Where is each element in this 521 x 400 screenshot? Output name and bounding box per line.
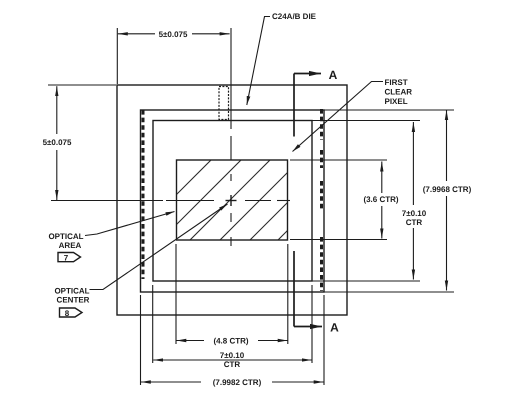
vertical centerline: [230, 28, 232, 246]
svg-text:FIRST: FIRST: [385, 78, 408, 87]
die outline outer square: [117, 85, 347, 315]
leader OPTICAL AREA: [85, 212, 175, 236]
flag 7: [58, 253, 81, 262]
svg-text:CTR: CTR: [406, 218, 423, 227]
svg-text:C24A/B DIE: C24A/B DIE: [272, 12, 317, 21]
inner die edge square 1: [141, 110, 325, 292]
svg-text:OPTICAL: OPTICAL: [54, 287, 89, 296]
svg-text:CENTER: CENTER: [57, 296, 90, 305]
svg-text:AREA: AREA: [59, 241, 82, 250]
leader FIRST CLEAR PIXEL: [293, 82, 384, 152]
section line A top: [294, 74, 321, 137]
leader OPTICAL CENTER: [90, 204, 228, 290]
svg-text:5±0.075: 5±0.075: [43, 138, 72, 147]
dimension (7.9968 CTR) right: [324, 110, 454, 292]
svg-text:7: 7: [64, 253, 69, 262]
optical center cross: [226, 195, 237, 206]
dimension 5±0.075 left: [48, 85, 116, 200]
svg-text:8: 8: [65, 309, 70, 318]
inner die edge square 2: [153, 121, 312, 282]
svg-text:(3.6 CTR): (3.6 CTR): [363, 195, 398, 204]
svg-text:(7.9968 CTR): (7.9968 CTR): [423, 185, 472, 194]
dimension 5±0.075 top: [117, 28, 229, 84]
svg-text:7±0.10: 7±0.10: [220, 351, 245, 360]
svg-text:A: A: [329, 68, 338, 82]
dimension (7.9982 CTR) bottom: [141, 295, 325, 385]
optical area rectangle: [177, 160, 288, 240]
dimension 7±0.10 CTR right: [313, 121, 421, 282]
dimension (3.6 CTR) right: [290, 160, 387, 240]
bond pad dashed row right: [320, 109, 323, 291]
svg-text:(4.8 CTR): (4.8 CTR): [213, 337, 248, 346]
svg-text:5±0.075: 5±0.075: [159, 30, 188, 39]
svg-text:(7.9982 CTR): (7.9982 CTR): [213, 378, 262, 387]
svg-text:7±0.10: 7±0.10: [402, 209, 427, 218]
section line A bottom: [294, 251, 322, 327]
svg-text:A: A: [330, 321, 339, 335]
dimension (4.8 CTR) bottom: [176, 244, 288, 344]
svg-text:OPTICAL: OPTICAL: [48, 232, 83, 241]
svg-text:CTR: CTR: [224, 360, 241, 369]
flag 8: [60, 308, 83, 317]
horizontal centerline: [51, 200, 290, 202]
pad detail rectangle top: [219, 87, 229, 120]
svg-text:CLEAR: CLEAR: [385, 88, 413, 97]
dimension 7±0.10 CTR bottom: [153, 285, 312, 363]
leader C24A/B DIE: [247, 17, 270, 106]
bond pad dashed row left: [142, 110, 145, 279]
svg-text:PIXEL: PIXEL: [385, 97, 408, 106]
